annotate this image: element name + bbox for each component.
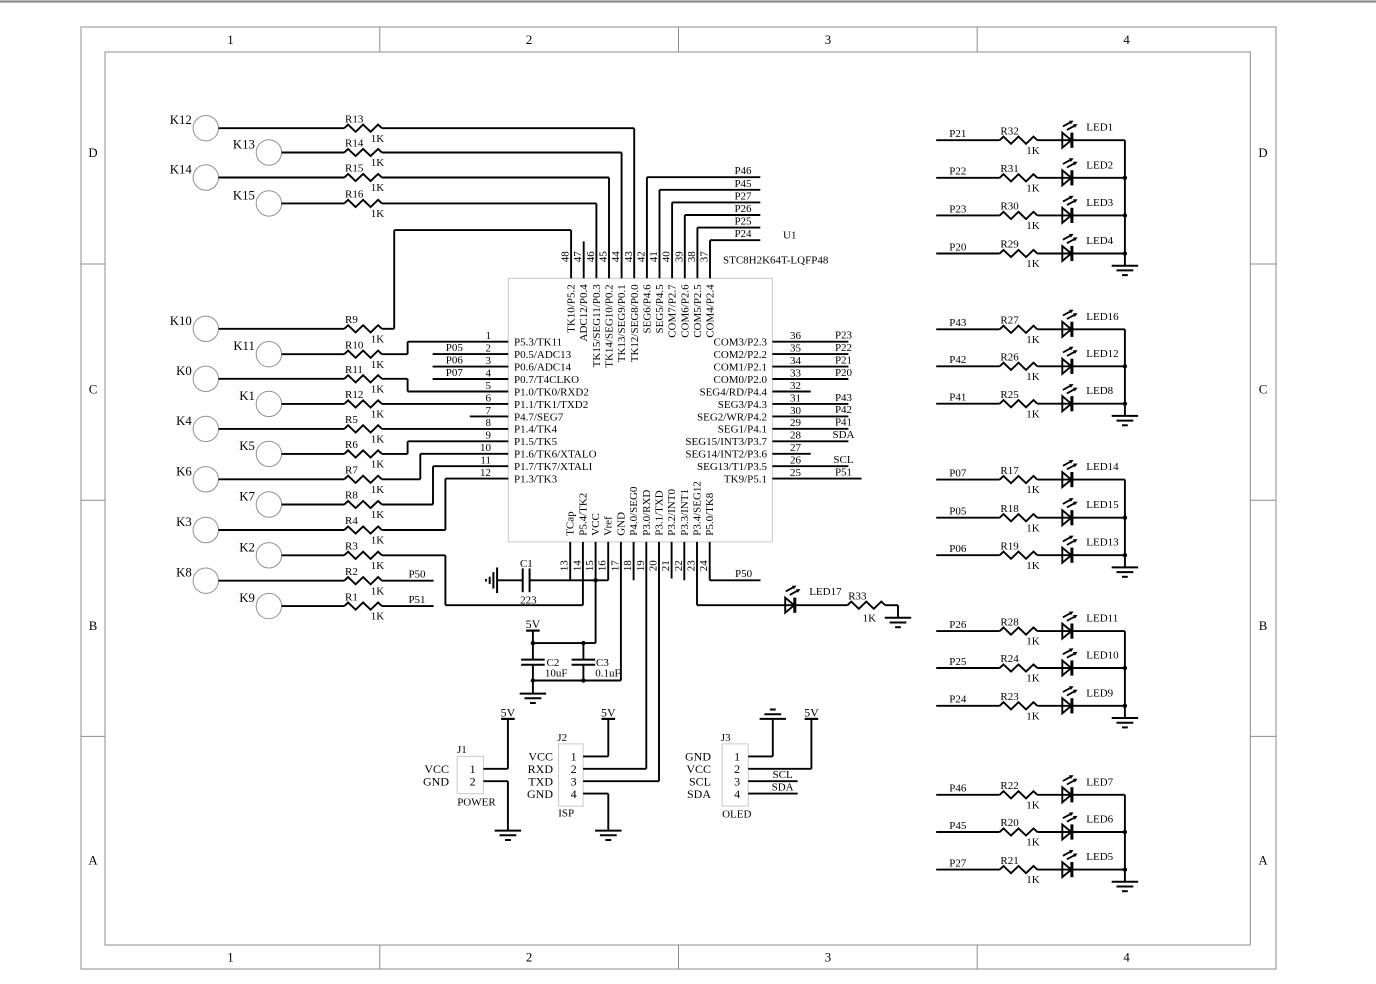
svg-text:COM2/P2.2: COM2/P2.2 [714, 349, 768, 361]
svg-text:1K: 1K [1026, 874, 1040, 886]
svg-text:16: 16 [597, 560, 609, 572]
svg-text:P5.3/TK11: P5.3/TK11 [514, 337, 562, 349]
svg-text:5V: 5V [526, 617, 541, 631]
svg-text:4: 4 [571, 787, 577, 801]
svg-text:1K: 1K [371, 157, 385, 169]
svg-text:SEG14/INT2/P3.6: SEG14/INT2/P3.6 [685, 449, 767, 461]
svg-text:10: 10 [480, 442, 492, 454]
svg-text:K1: K1 [239, 389, 255, 403]
svg-text:1K: 1K [1026, 522, 1040, 534]
svg-text:SEG4/RD/P4.4: SEG4/RD/P4.4 [699, 386, 767, 398]
svg-text:P51: P51 [835, 466, 852, 478]
svg-text:R29: R29 [1000, 239, 1019, 251]
svg-text:P23: P23 [949, 203, 967, 215]
svg-text:36: 36 [790, 330, 802, 342]
svg-text:COM6/P2.6: COM6/P2.6 [679, 284, 691, 338]
svg-text:25: 25 [790, 467, 802, 479]
svg-text:R23: R23 [1000, 691, 1019, 703]
svg-text:K3: K3 [176, 515, 192, 529]
svg-text:D: D [88, 146, 97, 160]
svg-text:SEG3/P4.3: SEG3/P4.3 [718, 399, 768, 411]
svg-text:P51: P51 [408, 594, 425, 606]
svg-text:K0: K0 [176, 364, 192, 378]
svg-text:23: 23 [686, 560, 698, 572]
svg-text:TK10/P5.2: TK10/P5.2 [566, 284, 578, 333]
svg-text:P26: P26 [949, 619, 967, 631]
svg-text:13: 13 [559, 560, 571, 572]
svg-text:COM7/P2.7: COM7/P2.7 [667, 284, 679, 338]
svg-text:A: A [1258, 853, 1268, 867]
svg-text:P24: P24 [949, 694, 967, 706]
svg-text:P22: P22 [949, 166, 966, 178]
svg-text:LED9: LED9 [1086, 687, 1113, 699]
svg-text:LED13: LED13 [1086, 537, 1119, 549]
svg-text:P05: P05 [446, 342, 464, 354]
svg-text:26: 26 [790, 455, 802, 467]
svg-text:SEG6/P4.6: SEG6/P4.6 [641, 284, 653, 334]
svg-text:1K: 1K [863, 612, 877, 624]
svg-text:37: 37 [699, 251, 711, 263]
svg-text:SDA: SDA [687, 787, 711, 801]
svg-text:P43: P43 [949, 317, 967, 329]
svg-text:K14: K14 [170, 163, 193, 177]
svg-text:11: 11 [480, 455, 491, 467]
svg-text:223: 223 [520, 595, 537, 607]
svg-text:P22: P22 [835, 342, 852, 354]
svg-text:43: 43 [623, 251, 635, 263]
svg-text:47: 47 [572, 251, 584, 263]
svg-text:3: 3 [825, 33, 831, 47]
svg-text:1K: 1K [371, 133, 385, 145]
svg-text:A: A [88, 853, 98, 867]
svg-text:10uF: 10uF [545, 668, 568, 680]
svg-text:R21: R21 [1000, 855, 1018, 867]
svg-text:P3.3/INT1: P3.3/INT1 [679, 489, 691, 536]
svg-text:15: 15 [584, 560, 596, 572]
svg-text:TK12/SEG8/P0.0: TK12/SEG8/P0.0 [629, 284, 641, 362]
svg-text:21: 21 [660, 560, 672, 571]
svg-text:5V: 5V [601, 705, 616, 719]
svg-text:5V: 5V [501, 705, 516, 719]
svg-text:4: 4 [1123, 950, 1130, 964]
svg-text:4: 4 [734, 787, 740, 801]
svg-text:1K: 1K [1026, 673, 1040, 685]
svg-text:R10: R10 [345, 339, 364, 351]
svg-text:8: 8 [486, 417, 492, 429]
svg-text:C: C [1259, 383, 1268, 397]
svg-text:P43: P43 [835, 392, 853, 404]
svg-text:1K: 1K [371, 585, 385, 597]
svg-text:1K: 1K [1026, 182, 1040, 194]
svg-text:1K: 1K [371, 208, 385, 220]
svg-text:46: 46 [585, 251, 597, 263]
svg-text:P45: P45 [734, 178, 752, 190]
svg-text:1K: 1K [371, 509, 385, 521]
svg-text:R19: R19 [1000, 540, 1019, 552]
svg-text:B: B [89, 619, 98, 633]
svg-text:LED1: LED1 [1086, 122, 1113, 134]
svg-text:30: 30 [790, 405, 802, 417]
svg-text:J3: J3 [721, 732, 731, 744]
svg-text:K6: K6 [176, 464, 192, 478]
svg-text:LED4: LED4 [1086, 235, 1113, 247]
svg-text:P46: P46 [734, 165, 752, 177]
svg-text:LED12: LED12 [1086, 348, 1118, 360]
svg-text:5V: 5V [804, 705, 819, 719]
svg-text:P5.0/TK8: P5.0/TK8 [704, 492, 716, 536]
svg-text:SEG1/P4.1: SEG1/P4.1 [718, 424, 767, 436]
svg-text:D: D [1258, 146, 1267, 160]
svg-text:1K: 1K [1026, 371, 1040, 383]
svg-text:R3: R3 [345, 541, 358, 553]
svg-text:0.1uF: 0.1uF [595, 668, 620, 680]
svg-text:P26: P26 [734, 203, 752, 215]
svg-text:1K: 1K [1026, 837, 1040, 849]
svg-text:22: 22 [673, 560, 685, 571]
svg-text:P41: P41 [949, 392, 966, 404]
svg-text:1: 1 [227, 950, 233, 964]
svg-text:R30: R30 [1000, 201, 1019, 213]
svg-text:17: 17 [609, 560, 621, 572]
svg-text:44: 44 [610, 251, 622, 263]
svg-text:TK14/SEG10/P0.2: TK14/SEG10/P0.2 [604, 284, 616, 367]
svg-text:14: 14 [571, 560, 583, 572]
svg-text:R22: R22 [1000, 780, 1018, 792]
svg-text:1K: 1K [371, 459, 385, 471]
svg-text:1K: 1K [371, 359, 385, 371]
svg-text:GND: GND [615, 512, 627, 536]
svg-text:6: 6 [486, 392, 492, 404]
svg-text:33: 33 [790, 367, 802, 379]
svg-text:R25: R25 [1000, 389, 1019, 401]
svg-text:OLED: OLED [722, 809, 751, 821]
svg-text:R11: R11 [345, 364, 363, 376]
svg-text:K11: K11 [233, 339, 255, 353]
svg-text:P1.3/TK3: P1.3/TK3 [514, 474, 558, 486]
svg-text:R15: R15 [345, 163, 364, 175]
svg-text:1K: 1K [371, 383, 385, 395]
svg-text:31: 31 [790, 392, 801, 404]
svg-text:P3.2/INT0: P3.2/INT0 [666, 489, 678, 536]
svg-text:48: 48 [560, 251, 572, 263]
svg-text:45: 45 [598, 251, 610, 263]
svg-text:TK15/SEG11/P0.3: TK15/SEG11/P0.3 [591, 284, 603, 368]
svg-text:1K: 1K [1026, 484, 1040, 496]
svg-text:27: 27 [790, 442, 802, 454]
svg-text:2: 2 [486, 343, 492, 355]
svg-text:R27: R27 [1000, 315, 1019, 327]
svg-text:1K: 1K [1026, 145, 1040, 157]
svg-text:COM3/P2.3: COM3/P2.3 [714, 337, 768, 349]
svg-text:P4.7/SEG7: P4.7/SEG7 [514, 411, 564, 423]
svg-text:1K: 1K [1026, 560, 1040, 572]
svg-text:SEG2/WR/P4.2: SEG2/WR/P4.2 [697, 411, 767, 423]
svg-text:J2: J2 [557, 732, 567, 744]
svg-text:R4: R4 [345, 515, 358, 527]
svg-text:P41: P41 [835, 417, 852, 429]
svg-text:1K: 1K [1026, 220, 1040, 232]
svg-text:38: 38 [686, 251, 698, 263]
svg-text:P42: P42 [949, 354, 966, 366]
svg-text:41: 41 [648, 251, 660, 262]
svg-text:LED11: LED11 [1086, 613, 1118, 625]
svg-text:R16: R16 [345, 189, 364, 201]
svg-text:SEG5/P4.5: SEG5/P4.5 [654, 284, 666, 334]
svg-text:K9: K9 [239, 591, 255, 605]
svg-text:COM1/P2.1: COM1/P2.1 [714, 362, 768, 374]
svg-text:B: B [1259, 619, 1268, 633]
svg-text:R17: R17 [1000, 465, 1019, 477]
svg-text:P0.7/T4CLKO: P0.7/T4CLKO [514, 374, 579, 386]
svg-text:K2: K2 [239, 540, 255, 554]
svg-text:K5: K5 [239, 439, 255, 453]
svg-text:9: 9 [486, 430, 492, 442]
svg-text:1K: 1K [371, 333, 385, 345]
svg-text:2: 2 [470, 774, 476, 788]
svg-text:LED2: LED2 [1086, 159, 1113, 171]
svg-text:LED3: LED3 [1086, 197, 1113, 209]
svg-text:12: 12 [480, 467, 491, 479]
svg-text:J1: J1 [457, 744, 467, 756]
svg-text:1K: 1K [1026, 710, 1040, 722]
svg-text:35: 35 [790, 343, 802, 355]
svg-text:1K: 1K [1026, 408, 1040, 420]
svg-text:1K: 1K [371, 611, 385, 623]
svg-text:GND: GND [527, 787, 553, 801]
svg-text:P1.1/TK1/TXD2: P1.1/TK1/TXD2 [514, 399, 588, 411]
svg-text:P5.4/TK2: P5.4/TK2 [577, 493, 589, 536]
svg-text:1: 1 [486, 330, 492, 342]
svg-text:LED5: LED5 [1086, 851, 1113, 863]
svg-text:20: 20 [648, 560, 660, 572]
svg-text:R31: R31 [1000, 163, 1018, 175]
svg-text:R8: R8 [345, 490, 358, 502]
svg-text:P24: P24 [734, 228, 752, 240]
svg-text:GND: GND [423, 774, 449, 788]
svg-text:R33: R33 [848, 590, 867, 602]
svg-text:R1: R1 [345, 591, 358, 603]
svg-text:42: 42 [635, 251, 647, 262]
svg-text:P45: P45 [949, 820, 967, 832]
svg-text:P21: P21 [949, 128, 966, 140]
svg-text:LED7: LED7 [1086, 776, 1113, 788]
svg-text:R2: R2 [345, 566, 358, 578]
svg-text:R5: R5 [345, 414, 358, 426]
svg-text:K8: K8 [176, 566, 192, 580]
svg-text:1: 1 [227, 33, 233, 47]
svg-text:LED15: LED15 [1086, 499, 1119, 511]
svg-text:P27: P27 [949, 858, 967, 870]
svg-text:P20: P20 [949, 241, 967, 253]
svg-text:R26: R26 [1000, 352, 1019, 364]
svg-text:P06: P06 [949, 543, 967, 555]
svg-text:18: 18 [622, 560, 634, 572]
svg-text:TCap: TCap [565, 511, 577, 536]
svg-text:P07: P07 [446, 367, 464, 379]
svg-text:1K: 1K [371, 560, 385, 572]
svg-text:SCL: SCL [773, 769, 793, 781]
svg-text:32: 32 [790, 380, 801, 392]
svg-text:P20: P20 [835, 367, 853, 379]
svg-text:POWER: POWER [457, 797, 496, 809]
svg-text:P06: P06 [446, 354, 464, 366]
svg-text:1K: 1K [371, 182, 385, 194]
svg-text:K12: K12 [170, 113, 192, 127]
svg-text:SEG15/INT3/P3.7: SEG15/INT3/P3.7 [685, 436, 767, 448]
svg-text:K4: K4 [176, 414, 192, 428]
svg-text:R6: R6 [345, 439, 358, 451]
svg-text:P3.0/RXD: P3.0/RXD [641, 490, 653, 536]
svg-text:R32: R32 [1000, 125, 1018, 137]
svg-text:5: 5 [486, 380, 492, 392]
svg-text:P07: P07 [949, 468, 967, 480]
svg-text:K13: K13 [233, 138, 255, 152]
svg-text:K10: K10 [170, 314, 192, 328]
svg-text:P1.0/TK0/RXD2: P1.0/TK0/RXD2 [514, 386, 589, 398]
svg-text:P1.6/TK6/XTALO: P1.6/TK6/XTALO [514, 449, 597, 461]
svg-text:24: 24 [698, 560, 710, 572]
svg-text:LED17: LED17 [809, 586, 842, 598]
svg-text:P50: P50 [735, 568, 753, 580]
svg-text:R13: R13 [345, 113, 364, 125]
svg-text:19: 19 [635, 560, 647, 572]
svg-text:39: 39 [673, 251, 685, 263]
svg-text:2: 2 [526, 950, 532, 964]
svg-text:R12: R12 [345, 389, 363, 401]
svg-text:SCL: SCL [833, 454, 853, 466]
svg-text:1K: 1K [371, 535, 385, 547]
svg-text:LED14: LED14 [1086, 461, 1119, 473]
svg-text:Vref: Vref [603, 516, 615, 536]
svg-text:3: 3 [486, 355, 492, 367]
svg-text:P3.1/TXD: P3.1/TXD [654, 490, 666, 536]
svg-text:R28: R28 [1000, 616, 1019, 628]
svg-text:STC8H2K64T-LQFP48: STC8H2K64T-LQFP48 [723, 254, 829, 266]
svg-text:P42: P42 [835, 404, 852, 416]
svg-text:R20: R20 [1000, 817, 1019, 829]
svg-text:ISP: ISP [558, 808, 574, 820]
svg-text:COM4/P2.4: COM4/P2.4 [705, 284, 717, 338]
svg-text:40: 40 [661, 251, 673, 263]
svg-text:COM0/P2.0: COM0/P2.0 [714, 374, 768, 386]
svg-text:K7: K7 [239, 490, 255, 504]
svg-text:1K: 1K [371, 434, 385, 446]
svg-text:P27: P27 [734, 190, 752, 202]
svg-text:P0.6/ADC14: P0.6/ADC14 [514, 362, 572, 374]
svg-text:1K: 1K [1026, 799, 1040, 811]
svg-text:R9: R9 [345, 314, 358, 326]
svg-text:SDA: SDA [832, 429, 854, 441]
svg-text:1K: 1K [371, 409, 385, 421]
svg-text:SEG13/T1/P3.5: SEG13/T1/P3.5 [697, 461, 767, 473]
svg-text:3: 3 [825, 950, 831, 964]
svg-text:1K: 1K [371, 484, 385, 496]
svg-text:C1: C1 [520, 558, 533, 570]
svg-text:P46: P46 [949, 783, 967, 795]
svg-text:ADC12/P0.4: ADC12/P0.4 [578, 284, 590, 342]
svg-text:LED8: LED8 [1086, 385, 1113, 397]
svg-text:P25: P25 [734, 216, 752, 228]
svg-text:C: C [89, 383, 98, 397]
svg-text:P1.5/TK5: P1.5/TK5 [514, 436, 558, 448]
svg-text:P0.5/ADC13: P0.5/ADC13 [514, 349, 572, 361]
svg-text:4: 4 [1123, 33, 1130, 47]
svg-text:P05: P05 [949, 506, 967, 518]
svg-text:TK9/P5.1: TK9/P5.1 [724, 474, 767, 486]
svg-text:P23: P23 [835, 330, 853, 342]
svg-text:R7: R7 [345, 465, 358, 477]
svg-text:29: 29 [790, 417, 802, 429]
svg-text:P25: P25 [949, 656, 967, 668]
svg-text:1K: 1K [1026, 258, 1040, 270]
svg-text:K15: K15 [233, 188, 255, 202]
svg-text:P50: P50 [408, 569, 426, 581]
svg-text:1K: 1K [1026, 334, 1040, 346]
svg-text:4: 4 [486, 367, 492, 379]
svg-text:SDA: SDA [772, 781, 794, 793]
svg-text:P21: P21 [835, 354, 852, 366]
svg-text:R14: R14 [345, 138, 364, 150]
svg-text:TK13/SEG9/P0.1: TK13/SEG9/P0.1 [616, 284, 628, 362]
svg-text:P3.4/SEG12: P3.4/SEG12 [692, 481, 704, 536]
svg-text:28: 28 [790, 430, 802, 442]
svg-text:R24: R24 [1000, 653, 1019, 665]
svg-text:34: 34 [790, 355, 802, 367]
svg-text:P1.7/TK7/XTALI: P1.7/TK7/XTALI [514, 461, 593, 473]
svg-text:COM5/P2.5: COM5/P2.5 [692, 284, 704, 338]
svg-text:7: 7 [486, 405, 492, 417]
svg-text:LED16: LED16 [1086, 311, 1119, 323]
svg-text:1K: 1K [1026, 636, 1040, 648]
svg-text:2: 2 [526, 33, 532, 47]
svg-text:R18: R18 [1000, 503, 1019, 515]
svg-text:U1: U1 [783, 230, 796, 242]
svg-text:VCC: VCC [590, 513, 602, 536]
svg-text:LED10: LED10 [1086, 650, 1119, 662]
svg-text:P4.0/SEG0: P4.0/SEG0 [628, 486, 640, 536]
svg-text:P1.4/TK4: P1.4/TK4 [514, 424, 558, 436]
svg-text:LED6: LED6 [1086, 814, 1113, 826]
